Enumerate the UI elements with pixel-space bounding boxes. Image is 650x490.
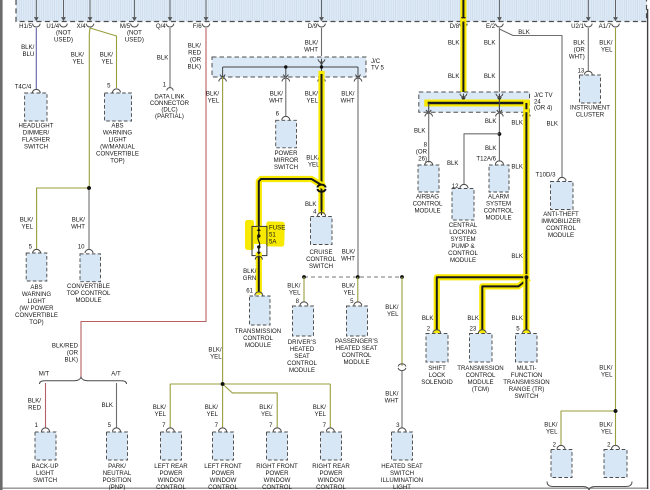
svg-text:MODULE: MODULE	[450, 257, 476, 264]
svg-text:BLU: BLU	[22, 51, 34, 58]
svg-text:POWER: POWER	[159, 470, 183, 477]
svg-text:(OR: (OR	[67, 350, 79, 357]
svg-text:CONTROL: CONTROL	[306, 256, 336, 263]
svg-text:HEADLIGHT: HEADLIGHT	[19, 123, 54, 130]
svg-text:POSITION: POSITION	[102, 477, 131, 484]
svg-text:BLK: BLK	[485, 145, 497, 152]
svg-text:SWITCH: SWITCH	[390, 470, 414, 477]
svg-text:YEL: YEL	[601, 47, 613, 54]
svg-text:H1/5: H1/5	[19, 23, 32, 30]
svg-text:BLK/: BLK/	[270, 90, 284, 97]
svg-text:TOP): TOP)	[110, 158, 124, 165]
svg-text:BLK: BLK	[157, 55, 169, 62]
svg-text:LEFT REAR: LEFT REAR	[154, 463, 188, 470]
svg-text:BLK/: BLK/	[287, 283, 301, 290]
svg-text:BLK/: BLK/	[341, 90, 355, 97]
svg-text:BLK/: BLK/	[342, 283, 356, 290]
svg-text:BLK/: BLK/	[20, 217, 34, 224]
svg-text:YEL: YEL	[261, 411, 273, 418]
svg-text:MULTI-: MULTI-	[517, 365, 537, 372]
svg-text:FUSE: FUSE	[269, 225, 285, 232]
svg-text:BLK/: BLK/	[599, 40, 613, 47]
svg-text:WARNING: WARNING	[22, 291, 51, 298]
svg-text:13: 13	[578, 68, 585, 75]
svg-text:(PARTIAL): (PARTIAL)	[155, 113, 184, 120]
svg-text:LIGHT: LIGHT	[393, 484, 411, 490]
svg-text:HEATED: HEATED	[290, 346, 315, 353]
svg-text:YEL: YEL	[387, 311, 399, 318]
svg-text:BLK/: BLK/	[72, 217, 86, 224]
svg-text:D/8: D/8	[450, 23, 460, 30]
svg-text:WARNING: WARNING	[103, 130, 132, 137]
svg-text:YEL: YEL	[154, 411, 166, 418]
svg-text:YEL: YEL	[601, 429, 613, 436]
svg-text:(PNP): (PNP)	[109, 484, 126, 490]
svg-text:BLK/: BLK/	[28, 398, 42, 405]
svg-text:LOCK: LOCK	[429, 372, 446, 379]
svg-text:WHT: WHT	[269, 97, 283, 104]
svg-text:TRANSMISSION: TRANSMISSION	[503, 379, 549, 386]
svg-text:WHT: WHT	[341, 256, 355, 263]
svg-text:YEL: YEL	[546, 429, 558, 436]
svg-text:MODULE: MODULE	[289, 367, 315, 374]
svg-text:FLASHER: FLASHER	[22, 137, 51, 144]
svg-text:CONTROL: CONTROL	[262, 484, 292, 490]
svg-text:BLK/: BLK/	[243, 268, 257, 275]
svg-text:BLK/: BLK/	[71, 52, 85, 59]
svg-text:FUNCTION: FUNCTION	[511, 372, 542, 379]
svg-text:WHT: WHT	[385, 398, 399, 405]
svg-text:BLK: BLK	[414, 128, 426, 135]
svg-text:RED: RED	[188, 50, 201, 57]
svg-text:SOLENOID: SOLENOID	[421, 379, 453, 386]
svg-text:(NOT: (NOT	[127, 30, 142, 37]
svg-text:BLK/: BLK/	[599, 422, 613, 429]
svg-text:LOCKING: LOCKING	[449, 229, 477, 236]
svg-text:CRUISE: CRUISE	[309, 249, 332, 256]
svg-text:LIGHT: LIGHT	[36, 470, 54, 477]
svg-text:CONVERTIBLE: CONVERTIBLE	[67, 283, 110, 290]
svg-text:BLK: BLK	[518, 29, 530, 36]
svg-text:YEL: YEL	[72, 59, 84, 66]
svg-text:BLK/: BLK/	[153, 404, 167, 411]
svg-text:61: 61	[246, 288, 253, 295]
svg-text:BLK/: BLK/	[342, 249, 356, 256]
svg-text:BLK): BLK)	[64, 357, 78, 364]
svg-text:BLK: BLK	[484, 40, 496, 47]
svg-text:WINDOW: WINDOW	[264, 477, 291, 484]
svg-text:DIMMER/: DIMMER/	[23, 130, 50, 137]
svg-text:BLK/: BLK/	[313, 404, 327, 411]
svg-text:RANGE (TR): RANGE (TR)	[509, 386, 545, 393]
svg-text:BLK: BLK	[447, 160, 459, 167]
svg-text:ABS: ABS	[30, 284, 42, 291]
svg-text:SWITCH: SWITCH	[33, 477, 57, 484]
svg-text:USED): USED)	[54, 37, 73, 44]
svg-text:DRIVER’S: DRIVER’S	[288, 339, 316, 346]
svg-text:YEL: YEL	[308, 162, 320, 169]
svg-text:CONTROL: CONTROL	[287, 360, 317, 367]
svg-text:T4C/4: T4C/4	[15, 84, 32, 91]
svg-text:TOP CONTROL: TOP CONTROL	[67, 290, 111, 297]
svg-text:POWER: POWER	[319, 470, 343, 477]
svg-text:D/9: D/9	[308, 23, 318, 30]
svg-text:POWER: POWER	[265, 470, 289, 477]
svg-text:NEUTRAL: NEUTRAL	[103, 470, 132, 477]
svg-text:BLK/: BLK/	[188, 43, 202, 50]
svg-text:A1/7: A1/7	[599, 23, 612, 30]
svg-text:BLK: BLK	[511, 120, 523, 127]
svg-text:CENTRAL: CENTRAL	[449, 222, 478, 229]
svg-text:A/T: A/T	[111, 371, 121, 378]
svg-text:CONTROL: CONTROL	[342, 352, 372, 359]
svg-text:CONVERTIBLE: CONVERTIBLE	[96, 151, 139, 158]
svg-text:RIGHT REAR: RIGHT REAR	[312, 463, 350, 470]
svg-text:POWER: POWER	[211, 470, 235, 477]
svg-text:YEL: YEL	[21, 224, 33, 231]
svg-text:WINDOW: WINDOW	[318, 477, 345, 484]
svg-text:BLK/: BLK/	[599, 365, 613, 372]
svg-text:X/4: X/4	[77, 23, 87, 30]
svg-text:AIRBAG: AIRBAG	[416, 194, 439, 201]
svg-text:(OR: (OR	[574, 47, 586, 54]
svg-text:ILLUMINATION: ILLUMINATION	[381, 477, 423, 484]
svg-text:HEATED SEAT: HEATED SEAT	[381, 463, 423, 470]
svg-text:BLK: BLK	[467, 315, 479, 322]
svg-text:CLUSTER: CLUSTER	[576, 112, 605, 119]
svg-text:BLK: BLK	[422, 315, 434, 322]
svg-text:MIRROR: MIRROR	[274, 157, 299, 164]
svg-text:BLK/: BLK/	[385, 391, 399, 398]
svg-text:MODULE: MODULE	[548, 232, 574, 239]
svg-text:BLK/: BLK/	[305, 90, 319, 97]
svg-text:SWITCH: SWITCH	[24, 144, 48, 151]
svg-text:(OR 4): (OR 4)	[534, 105, 552, 112]
svg-text:T10D/3: T10D/3	[536, 172, 557, 179]
svg-text:BLK: BLK	[305, 201, 317, 208]
svg-text:WHT: WHT	[71, 224, 85, 231]
svg-text:RIGHT FRONT: RIGHT FRONT	[256, 463, 298, 470]
svg-text:T12A/6: T12A/6	[476, 155, 496, 162]
svg-text:10: 10	[78, 244, 85, 251]
svg-text:(OR: (OR	[190, 57, 202, 64]
svg-text:YEL: YEL	[208, 97, 220, 104]
svg-text:BLK/: BLK/	[544, 422, 558, 429]
svg-text:LEFT FRONT: LEFT FRONT	[204, 463, 242, 470]
svg-text:MODULE: MODULE	[414, 208, 440, 215]
svg-text:BLK/: BLK/	[259, 404, 273, 411]
svg-text:SYSTEM: SYSTEM	[450, 236, 475, 243]
svg-text:CONTROL: CONTROL	[546, 225, 576, 232]
svg-text:(OR: (OR	[416, 149, 428, 156]
svg-text:CONTROL: CONTROL	[484, 208, 514, 215]
svg-text:CONTROL: CONTROL	[316, 484, 346, 490]
svg-text:SYSTEM: SYSTEM	[486, 201, 511, 208]
svg-text:CONTROL: CONTROL	[413, 201, 443, 208]
svg-text:BLK: BLK	[573, 40, 585, 47]
svg-text:BLK/: BLK/	[385, 304, 399, 311]
svg-text:51: 51	[269, 232, 276, 239]
svg-text:BLK: BLK	[448, 73, 460, 80]
svg-text:BLK/: BLK/	[21, 44, 35, 51]
svg-text:U2/1: U2/1	[571, 23, 584, 30]
svg-text:YEL: YEL	[101, 59, 113, 66]
svg-text:TRANSMISSION: TRANSMISSION	[235, 328, 281, 335]
svg-text:WHT: WHT	[304, 47, 318, 54]
svg-text:MODULE: MODULE	[75, 297, 101, 304]
svg-text:BLK: BLK	[448, 40, 460, 47]
svg-text:CONTROL: CONTROL	[243, 335, 273, 342]
svg-text:YEL: YEL	[314, 411, 326, 418]
svg-text:BLK/: BLK/	[205, 404, 219, 411]
svg-text:LIGHT: LIGHT	[28, 298, 46, 305]
svg-text:TOP): TOP)	[29, 319, 43, 326]
svg-text:BACK-UP: BACK-UP	[31, 463, 58, 470]
svg-text:(TCM): (TCM)	[472, 386, 489, 393]
svg-text:LIGHT: LIGHT	[109, 137, 127, 144]
svg-text:BLK: BLK	[485, 118, 497, 125]
svg-text:CONTROL: CONTROL	[156, 484, 186, 490]
svg-text:BLK/: BLK/	[206, 90, 220, 97]
svg-text:BLK: BLK	[484, 73, 496, 80]
svg-text:23: 23	[470, 326, 477, 333]
svg-text:5A: 5A	[269, 239, 277, 246]
svg-text:E/2: E/2	[486, 23, 496, 30]
svg-text:BLK: BLK	[511, 253, 523, 260]
svg-text:PUMP &: PUMP &	[451, 243, 474, 250]
svg-text:BLK: BLK	[511, 164, 523, 171]
svg-text:WINDOW: WINDOW	[210, 477, 237, 484]
svg-text:IMMOBILIZER: IMMOBILIZER	[541, 218, 581, 225]
svg-text:ALARM: ALARM	[488, 194, 509, 201]
svg-text:PASSENGER’S: PASSENGER’S	[335, 338, 378, 345]
svg-text:GRN: GRN	[243, 275, 257, 282]
svg-text:BLK/: BLK/	[306, 155, 320, 162]
svg-text:BLK: BLK	[511, 315, 523, 322]
svg-text:YEL: YEL	[206, 411, 218, 418]
svg-text:CONTROL: CONTROL	[448, 250, 478, 257]
svg-text:YEL: YEL	[289, 290, 301, 297]
svg-text:ANTI-THEFT: ANTI-THEFT	[543, 211, 579, 218]
svg-text:YEL: YEL	[306, 97, 318, 104]
svg-text:MODULE: MODULE	[485, 215, 511, 222]
svg-text:CONTROL: CONTROL	[466, 372, 496, 379]
svg-text:Q/4: Q/4	[156, 23, 166, 30]
svg-text:(W/MANUAL: (W/MANUAL	[100, 144, 135, 151]
svg-text:BLK/: BLK/	[100, 52, 114, 59]
svg-text:USED): USED)	[125, 37, 144, 44]
svg-text:HEATED SEAT: HEATED SEAT	[336, 345, 378, 352]
svg-text:SWITCH: SWITCH	[274, 164, 298, 171]
svg-text:POWER: POWER	[274, 150, 298, 157]
svg-text:BLK/: BLK/	[305, 40, 319, 47]
svg-text:SEAT: SEAT	[294, 353, 310, 360]
svg-text:YEL: YEL	[343, 290, 355, 297]
svg-text:M/T: M/T	[39, 371, 50, 378]
svg-text:CONVERTIBLE: CONVERTIBLE	[15, 312, 58, 319]
svg-text:INSTRUMENT: INSTRUMENT	[570, 105, 610, 112]
svg-text:SWITCH: SWITCH	[514, 393, 538, 400]
svg-text:BLK: BLK	[101, 402, 113, 409]
svg-text:TRANSMISSION: TRANSMISSION	[457, 365, 503, 372]
svg-text:YEL: YEL	[210, 354, 222, 361]
svg-text:BLK: BLK	[546, 121, 558, 128]
svg-text:MODULE: MODULE	[343, 359, 369, 366]
svg-text:MODULE: MODULE	[245, 342, 271, 349]
svg-text:PARK/: PARK/	[108, 463, 126, 470]
svg-text:RED: RED	[28, 405, 41, 412]
svg-text:CONTROL: CONTROL	[208, 484, 238, 490]
svg-text:BLK/RED: BLK/RED	[52, 343, 79, 350]
svg-text:YEL: YEL	[601, 372, 613, 379]
svg-text:BLK/: BLK/	[208, 347, 222, 354]
svg-text:26): 26)	[418, 156, 427, 163]
svg-text:TV 5: TV 5	[371, 65, 384, 72]
svg-text:(W/ POWER: (W/ POWER	[19, 305, 54, 312]
svg-text:SWITCH: SWITCH	[309, 263, 333, 270]
svg-text:BLK): BLK)	[187, 64, 201, 71]
svg-text:SHIFT: SHIFT	[428, 365, 446, 372]
svg-text:(NOT: (NOT	[56, 30, 71, 37]
svg-text:WHT): WHT)	[569, 54, 585, 61]
svg-text:MODULE: MODULE	[467, 379, 493, 386]
svg-text:WHT: WHT	[341, 97, 355, 104]
svg-text:WINDOW: WINDOW	[158, 477, 185, 484]
svg-text:ABS: ABS	[111, 123, 123, 130]
svg-text:F/6: F/6	[193, 23, 202, 30]
